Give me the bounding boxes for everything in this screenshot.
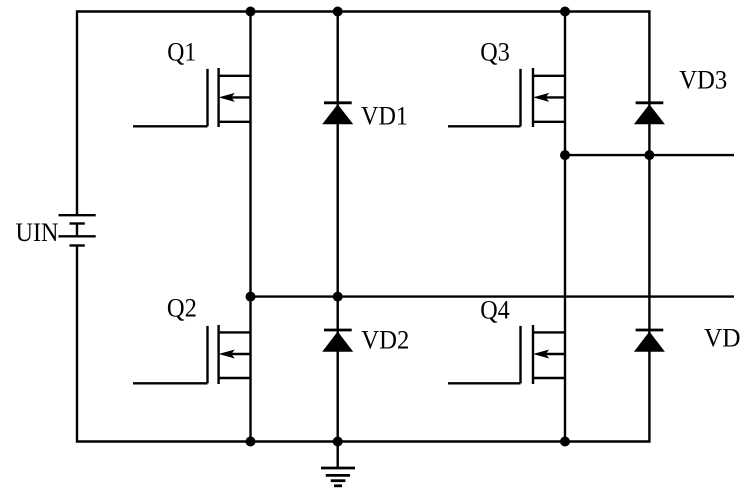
wire ground stem xyxy=(337,442,339,468)
battery UIN xyxy=(59,215,96,245)
node top rail / leg1 xyxy=(246,7,256,17)
diode VD3 xyxy=(634,103,665,125)
svg-text:Q4: Q4 xyxy=(480,294,510,324)
wire leg1 trunk (Q1/Q2 drain-source column) xyxy=(249,12,251,442)
node output A / leg2 xyxy=(560,150,570,160)
node output B / leg1 xyxy=(246,292,256,302)
svg-text:VD3: VD3 xyxy=(679,65,727,95)
svg-text:UIN: UIN xyxy=(16,217,59,247)
node top rail / VD1 column xyxy=(333,7,343,17)
transistor Q4 (MOSFET) xyxy=(448,325,565,384)
diode VD2 xyxy=(322,330,353,352)
node top rail / leg2 xyxy=(560,7,570,17)
svg-text:Q3: Q3 xyxy=(480,36,510,66)
svg-text:Q1: Q1 xyxy=(167,37,196,67)
node output A / VD3 column xyxy=(644,150,654,160)
svg-text:Q2: Q2 xyxy=(167,292,197,322)
diode VD1 xyxy=(322,103,353,125)
diode VD4 xyxy=(634,330,665,352)
svg-text:VD1: VD1 xyxy=(361,100,408,130)
node bottom rail / leg1 xyxy=(246,437,256,447)
node output B / VD2 column xyxy=(333,292,343,302)
wire outer loop (top rail, right rail, bottom rail, left rail with battery gap) xyxy=(77,12,649,442)
wire output node B (y=296.6) xyxy=(251,295,735,297)
transistor Q3 (MOSFET) xyxy=(448,68,565,127)
svg-text:VD: VD xyxy=(704,322,741,352)
transistor Q2 (MOSFET) xyxy=(133,325,251,384)
transistor Q1 (MOSFET) xyxy=(133,68,251,127)
wire leg2 trunk (Q3/Q4 column) xyxy=(564,12,566,442)
wire output node A (y=155) xyxy=(565,154,734,156)
ground xyxy=(321,468,355,486)
node dots xyxy=(246,7,655,447)
node bottom rail / leg2 xyxy=(560,437,570,447)
node bottom rail / ground xyxy=(333,437,343,447)
svg-text:VD2: VD2 xyxy=(361,325,409,355)
wire VD1/VD2 column xyxy=(337,12,339,442)
